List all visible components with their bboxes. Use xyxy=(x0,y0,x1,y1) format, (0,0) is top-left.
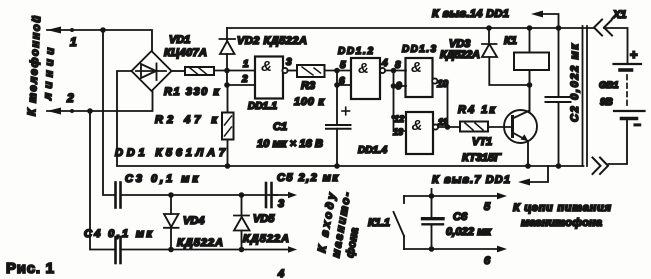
svg-text:КТ315Г: КТ315Г xyxy=(462,152,502,164)
transistor VT1 КТ315Г xyxy=(504,70,537,166)
svg-text:9: 9 xyxy=(396,81,402,92)
svg-text:DD1.1: DD1.1 xyxy=(248,101,277,112)
svg-text:X1: X1 xyxy=(612,9,626,21)
svg-text:К цепи питания: К цепи питания xyxy=(513,202,612,214)
svg-text:Рис. 1: Рис. 1 xyxy=(6,260,54,277)
terminal arrow 5 xyxy=(497,193,507,200)
svg-text:6: 6 xyxy=(339,76,345,87)
svg-text:9В: 9В xyxy=(600,97,613,108)
node dot C6 bottom xyxy=(429,246,435,252)
svg-text:&: & xyxy=(261,58,272,75)
wire gate3 out down to gate4 out xyxy=(437,81,447,127)
relay K1 coil xyxy=(514,28,549,112)
terminal arrow 3 xyxy=(288,192,297,198)
svg-text:8: 8 xyxy=(395,60,401,71)
capacitor C1 xyxy=(326,85,351,166)
svg-text:К1.1: К1.1 xyxy=(368,217,390,229)
diode VD5 xyxy=(234,195,250,250)
connector X1 top chevrons xyxy=(594,20,602,36)
svg-text:2: 2 xyxy=(241,74,248,85)
diode VD3 xyxy=(482,28,530,85)
svg-text:&: & xyxy=(358,60,369,77)
terminal arrow line 1 xyxy=(47,27,61,34)
svg-text:R4 1к: R4 1к xyxy=(458,104,496,116)
svg-text:К выв.7 DD1: К выв.7 DD1 xyxy=(432,174,510,186)
svg-text:R2 47 к: R2 47 к xyxy=(155,114,218,126)
svg-text:КД522А: КД522А xyxy=(440,49,480,61)
node dot emitter rail xyxy=(525,163,531,169)
wire line 2 xyxy=(47,91,153,111)
svg-text:12: 12 xyxy=(394,114,404,124)
node dot pin9 xyxy=(391,83,397,89)
wire K1.1 top line xyxy=(404,195,498,197)
svg-text:R1 330 к: R1 330 к xyxy=(164,86,220,98)
capacitor C5 xyxy=(266,183,289,207)
connector X1 double lines xyxy=(582,26,584,166)
svg-text:4: 4 xyxy=(277,268,284,279)
node dot C2 bottom xyxy=(556,163,562,169)
svg-text:КД522А: КД522А xyxy=(177,237,223,249)
node dot pin2 branch xyxy=(224,82,230,88)
svg-text:VD5: VD5 xyxy=(253,213,275,225)
node dot VD4 top xyxy=(168,192,174,198)
svg-text:C4 0,1 мк: C4 0,1 мк xyxy=(84,228,153,240)
svg-text:VT1: VT1 xyxy=(472,136,492,148)
node dot R2 rail xyxy=(225,163,231,169)
wire R2 to bottom rail xyxy=(227,140,229,167)
wire bridge plus to R1 xyxy=(172,70,186,72)
svg-text:GB1: GB1 xyxy=(599,80,619,91)
switch K1.1 xyxy=(394,196,405,249)
gate DD1.1 xyxy=(255,57,288,99)
svg-text:5: 5 xyxy=(484,201,491,213)
resistor R4 1k xyxy=(460,122,488,132)
wire R4 to base xyxy=(488,126,512,128)
node dot outputs join xyxy=(445,124,451,130)
node dot relay rail xyxy=(527,25,533,31)
svg-text:6: 6 xyxy=(484,255,491,267)
svg-text:DD1.4: DD1.4 xyxy=(358,145,387,156)
node dot C2 rail xyxy=(556,25,562,31)
gate DD1.2 xyxy=(351,58,385,99)
svg-text:C1: C1 xyxy=(273,121,287,133)
svg-text:С2 0,022 мк: С2 0,022 мк xyxy=(569,43,581,122)
wire pin9 stub xyxy=(394,85,407,87)
wire gate2 out to gate3 inputs xyxy=(385,70,406,72)
node junction line1 to C3 xyxy=(100,27,106,33)
node dot line 2 small xyxy=(70,109,74,113)
node dot C6 top xyxy=(429,193,435,199)
wire arrow to pin 14 xyxy=(541,14,559,28)
node dot pin12 xyxy=(391,115,396,120)
capacitor C2 xyxy=(546,28,571,166)
capacitor C4 xyxy=(116,237,290,263)
capacitor C3 xyxy=(116,183,278,208)
node dot VD3 relay xyxy=(527,82,533,88)
svg-text:5: 5 xyxy=(340,60,346,71)
node dot R1/VD2 xyxy=(224,68,230,74)
node dot C1 rail xyxy=(334,163,340,169)
wire line 1 xyxy=(47,30,152,51)
resistor R1 330k xyxy=(185,67,214,75)
node dot VD4 bottom xyxy=(168,247,174,253)
wire arrow to pin 7 xyxy=(528,166,548,182)
node dot VD3 rail xyxy=(486,25,492,31)
gate DD1.3 xyxy=(406,58,438,97)
battery GB1 xyxy=(614,64,645,119)
wire line1 down to C3 xyxy=(103,30,114,195)
svg-text:К1: К1 xyxy=(504,35,517,47)
wire line2 down to C4 xyxy=(90,111,114,250)
svg-text:DD1.3: DD1.3 xyxy=(402,44,436,55)
node dot pin6/C1 xyxy=(334,82,340,88)
wire node to pin2 branch xyxy=(227,71,255,86)
svg-text:3: 3 xyxy=(286,57,292,68)
svg-text:4: 4 xyxy=(381,58,388,69)
wire battery minus to chevron xyxy=(609,119,628,164)
svg-text:0,022 мк: 0,022 мк xyxy=(446,226,492,238)
svg-text:R3: R3 xyxy=(301,80,315,92)
svg-text:C5 2,2 мк: C5 2,2 мк xyxy=(277,172,339,184)
node dot VD5 top xyxy=(239,192,245,198)
node dot VD5 bottom xyxy=(239,247,245,253)
svg-text:10 мк × 16 В: 10 мк × 16 В xyxy=(257,138,323,150)
svg-text:–: – xyxy=(634,117,641,131)
svg-text:DD1 К561ЛА7: DD1 К561ЛА7 xyxy=(115,147,226,159)
svg-text:DD1.2: DD1.2 xyxy=(338,46,373,57)
wire bridge minus to bottom rail xyxy=(117,71,584,166)
node dot line 1 small xyxy=(70,28,74,32)
svg-text:+: + xyxy=(630,47,638,62)
gate DD1.4 xyxy=(406,112,438,154)
bridge rectifier VD1 xyxy=(132,51,172,91)
node junction line2 to C4 xyxy=(87,108,93,114)
capacitor C6 xyxy=(423,189,444,249)
terminal arrow 6 xyxy=(497,246,507,253)
svg-text:К выв.14 DD1: К выв.14 DD1 xyxy=(432,8,509,20)
top rail xyxy=(227,27,594,29)
resistor R3 100k xyxy=(297,65,325,77)
svg-text:КЦ407А: КЦ407А xyxy=(164,47,207,59)
diode VD4 xyxy=(164,195,179,250)
svg-text:100 к: 100 к xyxy=(294,96,325,108)
wire gate4 out to R4 xyxy=(438,126,460,128)
wire R3 to node 5/6 xyxy=(325,70,352,72)
svg-text:магнитофона: магнитофона xyxy=(521,217,602,229)
terminal arrow 4 xyxy=(288,246,297,252)
node dot pin8 branch xyxy=(391,68,397,74)
svg-text:1: 1 xyxy=(70,35,77,49)
svg-text:линии: линии xyxy=(42,47,57,101)
svg-text:К телефонной: К телефонной xyxy=(26,15,43,116)
svg-text:C3 0,1 мк: C3 0,1 мк xyxy=(125,173,199,185)
terminal arrow line 2 xyxy=(47,108,61,115)
wire down to R2 xyxy=(227,85,229,113)
svg-text:&: & xyxy=(412,117,423,134)
resistor R2 47k xyxy=(222,113,234,140)
svg-text:2: 2 xyxy=(66,91,74,105)
svg-text:C6: C6 xyxy=(453,211,468,223)
svg-text:VD2 КД522А: VD2 КД522А xyxy=(237,35,307,47)
svg-text:КД522А: КД522А xyxy=(243,233,289,245)
svg-text:VD1: VD1 xyxy=(169,34,190,46)
svg-text:&: & xyxy=(411,59,422,76)
node dot 5/6 xyxy=(334,68,340,74)
svg-text:13: 13 xyxy=(393,127,403,137)
svg-text:1: 1 xyxy=(243,59,249,70)
wire R1 to node xyxy=(214,70,255,72)
wire node to pin6 xyxy=(337,71,351,86)
wire gate1 out to R3 xyxy=(288,70,297,72)
svg-text:3: 3 xyxy=(278,198,284,210)
connector X1 bottom chevrons xyxy=(593,158,601,175)
svg-text:VD4: VD4 xyxy=(183,215,204,227)
wire chevron to battery plus xyxy=(604,28,628,63)
wire pin12 stub xyxy=(394,116,407,118)
diode VD2 xyxy=(220,28,236,71)
wire K1.1 bottom line xyxy=(404,248,498,250)
wire input bus down xyxy=(394,71,407,132)
